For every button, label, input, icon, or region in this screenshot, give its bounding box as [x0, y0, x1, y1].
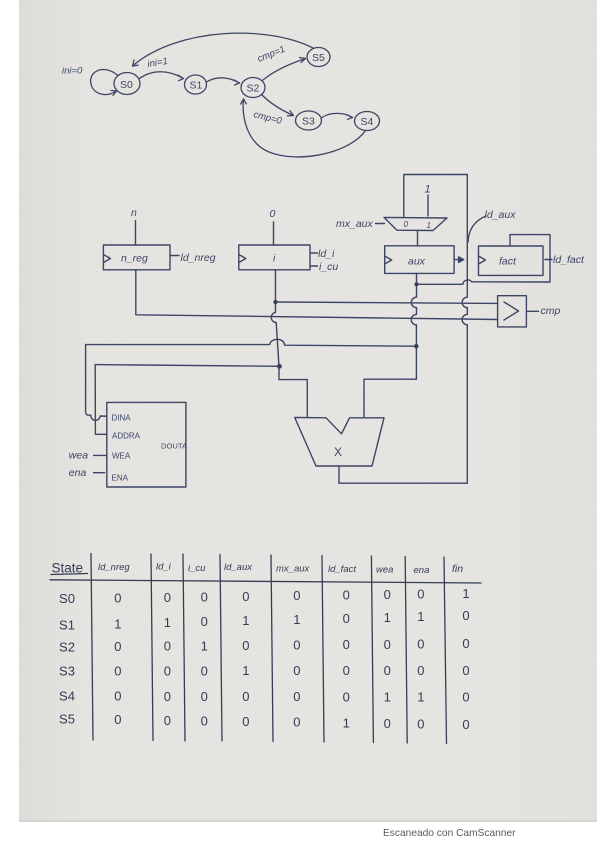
svg-text:1: 1	[343, 715, 350, 730]
svg-text:0: 0	[242, 689, 249, 704]
svg-text:S1: S1	[190, 80, 203, 92]
svg-text:ld_aux: ld_aux	[485, 209, 517, 221]
svg-text:0: 0	[404, 220, 409, 229]
svg-text:0: 0	[114, 590, 121, 605]
svg-text:0: 0	[201, 713, 208, 728]
svg-text:0: 0	[417, 637, 424, 652]
svg-text:1: 1	[114, 616, 121, 631]
svg-text:ld_nreg: ld_nreg	[181, 252, 216, 264]
svg-text:0: 0	[114, 639, 121, 654]
svg-text:0: 0	[384, 716, 391, 731]
svg-text:0: 0	[114, 712, 121, 727]
svg-text:0: 0	[293, 663, 300, 678]
svg-text:1: 1	[242, 663, 249, 678]
svg-text:S0: S0	[120, 79, 133, 91]
svg-text:0: 0	[242, 589, 249, 604]
svg-text:X: X	[334, 445, 342, 459]
svg-text:S4: S4	[59, 689, 75, 704]
svg-text:0: 0	[164, 639, 171, 654]
svg-text:0: 0	[201, 614, 208, 629]
svg-text:aux: aux	[408, 256, 426, 268]
svg-text:S5: S5	[312, 52, 325, 64]
svg-text:fin: fin	[452, 563, 463, 575]
svg-text:0: 0	[462, 636, 469, 651]
svg-text:0: 0	[164, 713, 171, 728]
svg-text:Escaneado con CamScanner: Escaneado con CamScanner	[383, 828, 516, 839]
svg-text:0: 0	[384, 637, 391, 652]
svg-text:1: 1	[462, 586, 469, 601]
svg-text:S1: S1	[59, 618, 75, 633]
svg-text:0: 0	[417, 716, 424, 731]
svg-text:S2: S2	[59, 640, 75, 655]
svg-text:0: 0	[114, 663, 121, 678]
svg-text:0: 0	[384, 587, 391, 602]
svg-text:S5: S5	[59, 712, 75, 727]
svg-text:S4: S4	[361, 116, 374, 128]
svg-text:0: 0	[384, 663, 391, 678]
svg-text:0: 0	[293, 638, 300, 653]
svg-text:cmp: cmp	[541, 305, 561, 317]
svg-text:1: 1	[417, 609, 424, 624]
svg-text:n_reg: n_reg	[121, 253, 148, 265]
svg-text:WEA: WEA	[112, 452, 131, 461]
svg-text:ENA: ENA	[112, 473, 129, 482]
svg-text:0: 0	[462, 608, 469, 623]
svg-text:0: 0	[343, 637, 350, 652]
svg-text:1: 1	[427, 221, 431, 230]
svg-text:S3: S3	[302, 116, 315, 128]
svg-text:0: 0	[462, 690, 469, 705]
svg-text:1: 1	[164, 615, 171, 630]
svg-text:mx_aux: mx_aux	[276, 564, 311, 575]
svg-text:0: 0	[270, 208, 276, 220]
svg-text:State: State	[52, 561, 84, 576]
svg-text:0: 0	[164, 689, 171, 704]
svg-text:0: 0	[293, 588, 300, 603]
svg-text:1: 1	[293, 612, 300, 627]
svg-text:S2: S2	[247, 83, 260, 95]
svg-text:ld_i: ld_i	[156, 562, 172, 573]
svg-text:wea: wea	[376, 565, 393, 576]
svg-text:S0: S0	[59, 591, 75, 606]
svg-text:ADDRA: ADDRA	[112, 432, 141, 441]
svg-text:ld_fact: ld_fact	[553, 254, 585, 266]
svg-text:mx_aux: mx_aux	[336, 218, 374, 230]
svg-text:ena: ena	[414, 565, 430, 576]
svg-text:0: 0	[242, 714, 249, 729]
svg-text:ld_nreg: ld_nreg	[98, 562, 130, 573]
svg-text:DOUTA: DOUTA	[161, 442, 188, 451]
svg-text:0: 0	[164, 663, 171, 678]
svg-text:fact: fact	[499, 256, 517, 268]
svg-text:i_cu: i_cu	[319, 261, 338, 273]
svg-text:1: 1	[242, 613, 249, 628]
svg-text:ini=0: ini=0	[62, 66, 83, 77]
svg-text:S3: S3	[59, 664, 75, 679]
svg-text:ld_i: ld_i	[318, 248, 335, 260]
svg-text:0: 0	[417, 663, 424, 678]
svg-text:ld_aux: ld_aux	[224, 562, 253, 573]
svg-text:0: 0	[343, 588, 350, 603]
svg-text:0: 0	[343, 611, 350, 626]
svg-text:0: 0	[114, 689, 121, 704]
svg-text:DINA: DINA	[112, 414, 132, 423]
svg-text:0: 0	[343, 663, 350, 678]
svg-text:0: 0	[201, 663, 208, 678]
svg-text:0: 0	[201, 689, 208, 704]
svg-text:0: 0	[462, 663, 469, 678]
svg-text:1: 1	[384, 610, 391, 625]
svg-text:1: 1	[384, 690, 391, 705]
svg-text:wea: wea	[69, 450, 88, 462]
svg-text:0: 0	[293, 689, 300, 704]
svg-text:ena: ena	[69, 467, 87, 479]
svg-text:1: 1	[201, 638, 208, 653]
svg-text:n: n	[131, 207, 137, 219]
svg-text:0: 0	[417, 587, 424, 602]
svg-text:0: 0	[293, 715, 300, 730]
svg-text:1: 1	[425, 184, 431, 196]
svg-text:0: 0	[164, 590, 171, 605]
svg-text:1: 1	[417, 690, 424, 705]
svg-text:0: 0	[201, 589, 208, 604]
svg-text:0: 0	[242, 638, 249, 653]
svg-text:i_cu: i_cu	[188, 563, 206, 574]
svg-text:0: 0	[343, 689, 350, 704]
svg-text:0: 0	[462, 717, 469, 732]
svg-text:ld_fact: ld_fact	[328, 564, 356, 575]
